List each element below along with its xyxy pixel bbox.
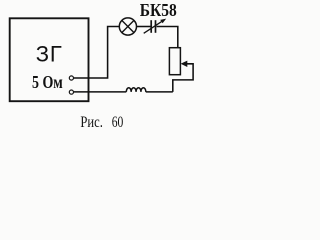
- svg-text:60: 60: [112, 114, 124, 131]
- svg-text:Рис.: Рис.: [80, 114, 103, 131]
- svg-text:5 Ом: 5 Ом: [32, 72, 63, 92]
- svg-text:ЗГ: ЗГ: [36, 41, 63, 66]
- svg-text:БК58: БК58: [140, 0, 177, 20]
